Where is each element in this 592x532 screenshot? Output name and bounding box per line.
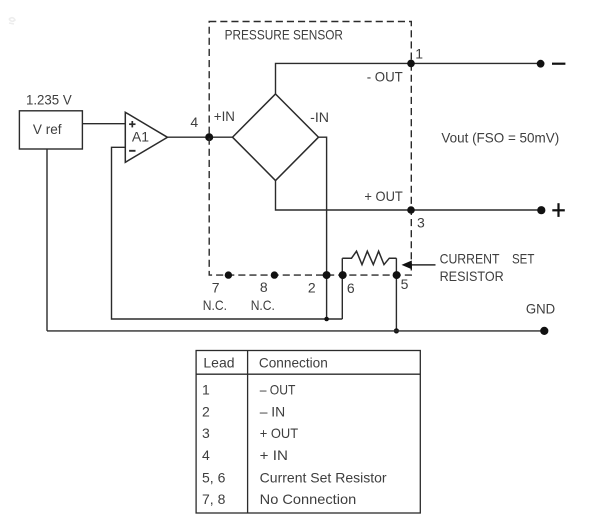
svg-text:SET: SET	[512, 250, 535, 266]
svg-text:5: 5	[401, 276, 409, 292]
svg-text:– IN: – IN	[260, 403, 286, 419]
wire resistor right lead pin 5 down to GND rail	[395, 258, 397, 331]
pin 7 dot	[225, 271, 232, 278]
wire op-amp inverting input feedback loop	[112, 147, 343, 319]
table row lead 1	[202, 382, 296, 398]
svg-text:Current Set Resistor: Current Set Resistor	[260, 470, 387, 486]
bridge sensor diamond	[233, 94, 319, 181]
svg-text:2: 2	[308, 280, 316, 296]
svg-text:V ref: V ref	[33, 121, 62, 137]
svg-text:No Connection: No Connection	[260, 491, 357, 507]
wire bridge bottom to +OUT terminal	[276, 181, 542, 211]
pin 5 dot	[393, 271, 401, 279]
svg-text:7: 7	[212, 280, 220, 296]
svg-text:2: 2	[202, 403, 210, 419]
svg-text:Vout (FSO = 50mV): Vout (FSO = 50mV)	[441, 129, 559, 145]
table row lead 4	[202, 447, 288, 463]
svg-text:1.235 V: 1.235 V	[26, 91, 72, 107]
table header row	[203, 354, 327, 370]
pin 8 dot	[271, 271, 278, 278]
svg-text:-IN: -IN	[310, 109, 329, 125]
svg-text:A1: A1	[132, 128, 149, 144]
svg-text:+ OUT: + OUT	[260, 425, 299, 441]
svg-text:6: 6	[347, 280, 355, 296]
plus terminal symbol	[552, 203, 565, 217]
svg-text:PRESSURE SENSOR: PRESSURE SENSOR	[225, 27, 343, 43]
svg-text:1: 1	[202, 382, 210, 398]
svg-text:+ OUT: + OUT	[364, 188, 403, 204]
pin 6 dot	[339, 271, 347, 279]
svg-text:8: 8	[260, 279, 268, 295]
svg-text:– OUT: – OUT	[260, 382, 296, 398]
wire Vref output to op-amp noninverting input	[82, 123, 125, 125]
op-amp A1	[125, 112, 167, 162]
svg-text:N.C.: N.C.	[251, 297, 275, 313]
wire bridge -IN through pin 2 down to feedback	[319, 137, 327, 319]
junction dot pin2 to feedback line	[324, 317, 329, 322]
pressure sensor dashed box	[209, 22, 411, 276]
table row leads 7,8	[202, 491, 356, 507]
node 1 junction dot	[407, 60, 415, 68]
minus terminal symbol	[552, 63, 565, 65]
node 4 junction dot	[205, 133, 213, 141]
+OUT terminal dot	[537, 206, 545, 214]
svg-text:3: 3	[202, 425, 210, 441]
svg-text:7, 8: 7, 8	[202, 491, 226, 507]
-OUT terminal dot	[537, 60, 545, 68]
svg-text:4: 4	[202, 447, 210, 463]
pin 2 dot	[323, 271, 331, 279]
svg-text:5, 6: 5, 6	[202, 470, 226, 486]
node 3 junction dot	[407, 206, 415, 214]
svg-text:3: 3	[417, 215, 425, 231]
wire bridge top to -OUT terminal	[276, 63, 541, 94]
GND rail	[47, 330, 544, 332]
wire op-amp output to bridge +IN	[168, 136, 234, 138]
table row lead 2	[202, 403, 285, 419]
svg-text:N.C.: N.C.	[203, 297, 227, 313]
wire Vref bottom down to GND rail	[46, 149, 48, 331]
label CURRENT SET	[440, 250, 535, 266]
faint artifact mark top-left	[9, 18, 15, 24]
svg-text:CURRENT: CURRENT	[440, 250, 500, 266]
wire resistor left lead pin 6 down to feedback	[341, 258, 343, 319]
voltage reference Vref	[19, 111, 82, 149]
svg-text:GND: GND	[526, 301, 555, 317]
arrow pointing to current set resistor	[402, 261, 436, 270]
lead connection table frame	[196, 351, 420, 514]
svg-text:+ IN: + IN	[260, 447, 288, 463]
table row lead 3	[202, 425, 299, 441]
junction dot pin5 to GND rail	[394, 328, 399, 333]
svg-text:Connection: Connection	[259, 354, 328, 370]
svg-text:RESISTOR: RESISTOR	[440, 268, 504, 284]
svg-text:- OUT: - OUT	[367, 68, 404, 84]
GND terminal dot	[540, 327, 548, 335]
resistor current set	[342, 251, 396, 264]
svg-text:1: 1	[415, 45, 423, 61]
svg-text:+IN: +IN	[214, 108, 235, 124]
svg-text:Lead: Lead	[203, 354, 234, 370]
table row leads 5,6	[202, 470, 387, 486]
svg-text:4: 4	[190, 114, 198, 130]
